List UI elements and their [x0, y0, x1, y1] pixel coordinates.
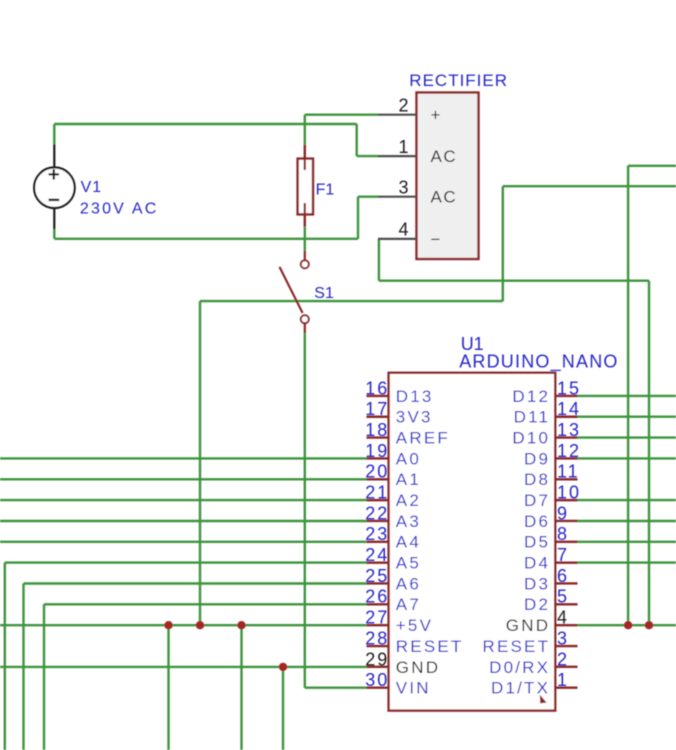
svg-text:11: 11	[557, 462, 580, 482]
svg-text:23: 23	[365, 524, 389, 544]
svg-text:6: 6	[557, 566, 569, 586]
svg-text:20: 20	[365, 462, 389, 482]
svg-text:1: 1	[557, 670, 569, 690]
svg-text:2: 2	[398, 96, 408, 116]
svg-text:230V AC: 230V AC	[80, 201, 159, 218]
svg-text:2: 2	[557, 649, 569, 669]
svg-text:1: 1	[398, 137, 408, 157]
svg-text:A2: A2	[396, 491, 421, 510]
svg-text:D9: D9	[524, 449, 550, 468]
svg-text:A4: A4	[396, 533, 421, 552]
svg-text:18: 18	[365, 420, 389, 440]
svg-text:RESET: RESET	[483, 637, 551, 656]
svg-text:16: 16	[365, 378, 389, 398]
svg-text:10: 10	[557, 483, 581, 503]
svg-text:29: 29	[365, 649, 389, 669]
svg-text:D5: D5	[524, 533, 550, 552]
svg-text:3V3: 3V3	[396, 408, 433, 427]
svg-text:4: 4	[398, 220, 408, 240]
svg-text:S1: S1	[314, 285, 334, 302]
svg-text:7: 7	[557, 545, 569, 565]
svg-text:25: 25	[365, 566, 389, 586]
svg-text:D0/RX: D0/RX	[489, 658, 550, 677]
svg-text:A5: A5	[396, 554, 421, 573]
svg-text:24: 24	[365, 545, 389, 565]
svg-text:GND: GND	[396, 658, 440, 677]
svg-text:21: 21	[365, 483, 389, 503]
svg-text:19: 19	[365, 441, 389, 461]
svg-text:15: 15	[557, 378, 581, 398]
svg-text:+5V: +5V	[396, 616, 433, 635]
svg-text:VIN: VIN	[396, 679, 431, 698]
svg-text:D7: D7	[524, 491, 550, 510]
svg-text:28: 28	[365, 628, 389, 648]
svg-text:AC: AC	[431, 188, 458, 207]
svg-text:F1: F1	[316, 182, 335, 199]
svg-text:AREF: AREF	[396, 428, 450, 447]
svg-text:30: 30	[365, 670, 389, 690]
svg-text:A6: A6	[396, 574, 421, 593]
svg-text:3: 3	[557, 628, 569, 648]
svg-text:14: 14	[557, 399, 581, 419]
svg-text:A1: A1	[396, 470, 421, 489]
svg-text:D6: D6	[524, 512, 550, 531]
svg-text:D1/TX: D1/TX	[491, 679, 550, 698]
svg-text:D12: D12	[512, 387, 550, 406]
svg-text:D4: D4	[524, 554, 550, 573]
svg-text:A0: A0	[396, 449, 421, 468]
svg-text:4: 4	[557, 608, 569, 628]
svg-text:13: 13	[557, 420, 581, 440]
svg-text:8: 8	[557, 524, 569, 544]
svg-text:22: 22	[365, 503, 389, 523]
svg-text:A7: A7	[396, 595, 421, 614]
svg-text:D11: D11	[514, 408, 551, 427]
svg-text:A3: A3	[396, 512, 421, 531]
svg-text:D2: D2	[524, 595, 550, 614]
svg-text:26: 26	[365, 587, 389, 607]
svg-text:D8: D8	[524, 470, 550, 489]
svg-text:RESET: RESET	[396, 637, 464, 656]
svg-text:17: 17	[365, 399, 389, 419]
svg-text:AC: AC	[431, 147, 458, 166]
svg-text:27: 27	[365, 608, 389, 628]
svg-text:12: 12	[557, 441, 581, 461]
svg-text:RECTIFIER: RECTIFIER	[409, 71, 508, 90]
svg-text:−: −	[431, 230, 442, 249]
svg-text:3: 3	[398, 178, 408, 198]
svg-text:GND: GND	[506, 616, 550, 635]
svg-text:ARDUINO_NANO: ARDUINO_NANO	[459, 352, 618, 373]
svg-text:D13: D13	[396, 387, 434, 406]
svg-text:9: 9	[557, 503, 569, 523]
svg-text:5: 5	[557, 587, 569, 607]
svg-text:D10: D10	[512, 428, 550, 447]
svg-text:V1: V1	[81, 179, 103, 196]
svg-text:D3: D3	[524, 574, 550, 593]
svg-text:+: +	[431, 106, 442, 125]
